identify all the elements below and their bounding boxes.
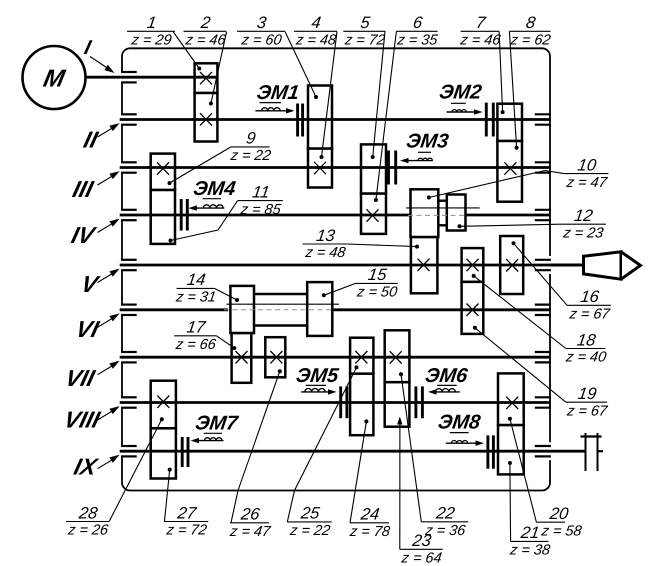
gear 20 (z=58) on shaft VIII <box>498 373 524 425</box>
right bearing shaft V <box>535 259 551 261</box>
right wall gap shaft V <box>549 256 552 274</box>
svg-text:VIII: VIII <box>62 407 103 433</box>
svg-text:10: 10 <box>576 155 598 174</box>
svg-text:z = 66: z = 66 <box>174 337 218 353</box>
svg-text:12: 12 <box>573 206 594 225</box>
X mark gear 19 <box>467 304 479 316</box>
gear 5 (z=72) free on shaft III <box>361 144 386 193</box>
svg-text:27: 27 <box>175 503 198 522</box>
svg-text:ЭМ3: ЭМ3 <box>405 131 450 153</box>
left bearing shaft VIII <box>121 396 137 398</box>
svg-text:z = 67: z = 67 <box>568 307 612 323</box>
gear 18 (z=40) on shaft V <box>462 248 484 282</box>
svg-text:z = 48: z = 48 <box>294 33 338 49</box>
svg-text:14: 14 <box>186 270 207 289</box>
svg-text:z = 85: z = 85 <box>239 202 283 218</box>
svg-text:z = 78: z = 78 <box>348 524 392 540</box>
X mark gear 13 <box>418 259 430 271</box>
gear 8 (z=62) on shaft III <box>497 141 522 202</box>
gear 10 (z=47) sliding on shaft IV <box>411 189 439 237</box>
svg-text:z = 64: z = 64 <box>400 551 443 566</box>
clutch plates EM1 (ЭМ1) <box>296 104 299 137</box>
svg-text:z = 47: z = 47 <box>565 175 609 191</box>
left wall gap shaft VI <box>121 305 124 315</box>
shaft III <box>120 166 550 169</box>
shaft V output extension <box>550 264 584 267</box>
left bearing shaft III <box>121 161 137 163</box>
shaft VII <box>120 356 550 359</box>
arrow to shaft V <box>98 271 117 283</box>
gear 26 (z=47) on shaft VII <box>265 337 285 377</box>
gear 13 (z=48) on shaft V <box>411 237 438 293</box>
arrow to shaft IX <box>98 457 117 469</box>
gear 15 (z=50) sliding on shaft VI <box>307 282 332 336</box>
right bearing shaft III <box>535 161 551 163</box>
svg-text:IX: IX <box>71 454 101 480</box>
svg-text:z = 50: z = 50 <box>355 285 398 301</box>
leader line for label 18 <box>474 276 566 349</box>
right bearing shaft II <box>535 113 551 115</box>
leader line for label 14 <box>214 288 237 300</box>
leader line for label 22 <box>401 374 421 522</box>
svg-text:z = 48: z = 48 <box>303 245 347 261</box>
svg-text:z = 31: z = 31 <box>174 290 217 306</box>
leader line for label 19 <box>475 328 566 402</box>
svg-text:8: 8 <box>525 13 538 32</box>
svg-text:III: III <box>70 176 96 202</box>
gear 28 (z=26) on shaft VIII <box>151 381 176 429</box>
shaft VI centerline (dashed) <box>224 309 334 311</box>
left wall gap shaft IV <box>121 210 124 220</box>
gear 17 (z=66) on shaft VII <box>232 333 252 383</box>
svg-text:z = 72: z = 72 <box>343 33 386 49</box>
svg-text:7: 7 <box>475 13 488 32</box>
svg-text:z = 62: z = 62 <box>509 33 552 49</box>
svg-text:21: 21 <box>519 523 541 542</box>
external bearing shaft IX <box>585 433 587 471</box>
left bearing shaft IV <box>121 209 137 211</box>
svg-text:3: 3 <box>256 13 269 32</box>
svg-text:z = 46: z = 46 <box>458 33 502 49</box>
arrow to shaft I <box>90 57 111 71</box>
svg-text:19: 19 <box>577 384 598 403</box>
svg-text:ЭМ5: ЭМ5 <box>295 365 341 387</box>
leader line for label 10 <box>429 171 564 198</box>
right wall gap shaft IX <box>549 442 552 460</box>
leader line for label 2 <box>211 32 227 104</box>
leader line for label 5 <box>373 31 385 157</box>
leader line for label 12 <box>460 224 560 226</box>
svg-text:z = 46: z = 46 <box>184 33 228 49</box>
clutch plates EM5 (ЭМ5) <box>339 386 342 418</box>
svg-text:ЭМ1: ЭМ1 <box>255 82 300 104</box>
motor M circle <box>23 46 86 109</box>
svg-text:z = 35: z = 35 <box>395 33 439 49</box>
svg-text:ЭМ4: ЭМ4 <box>192 178 237 200</box>
arrow to shaft IV <box>98 221 117 233</box>
X mark gear 22 <box>390 351 402 363</box>
X mark gear 8 <box>504 162 516 174</box>
svg-text:VII: VII <box>63 365 98 391</box>
clutch coil and arrow EM1 (ЭМ1) <box>260 102 282 104</box>
leader line for label 25 <box>287 367 356 522</box>
leader line for label 28 <box>109 419 162 521</box>
gear 4 (z=48) on shaft III <box>308 149 332 188</box>
X mark gear 16 <box>506 259 518 271</box>
left wall gap shaft I <box>121 72 124 82</box>
X mark gear 18 <box>467 259 479 271</box>
right bearing shaft VIII <box>535 396 551 398</box>
leader line for label 15 <box>324 283 356 295</box>
svg-text:IV: IV <box>69 222 99 248</box>
leader line for label 7 <box>499 31 503 112</box>
gear 22 (z=36) on shaft VII <box>385 330 410 382</box>
arrow to shaft VIII <box>98 408 117 420</box>
svg-text:18: 18 <box>576 330 598 349</box>
arrow to shaft VII <box>98 363 117 375</box>
arrow to shaft III <box>98 173 117 185</box>
leader line for label 13 <box>347 244 417 247</box>
gear 25 (z=22) on shaft VII <box>350 338 373 374</box>
svg-text:z = 67: z = 67 <box>565 403 609 419</box>
svg-text:13: 13 <box>315 226 337 245</box>
clutch coil and arrow EM3 (ЭМ3) <box>418 151 431 153</box>
gear 23 (z=64) free on shaft VIII <box>385 382 410 427</box>
left bearing shaft I <box>121 71 137 73</box>
svg-text:15: 15 <box>367 265 389 284</box>
svg-text:z = 22: z = 22 <box>229 148 272 164</box>
svg-text:4: 4 <box>310 13 322 32</box>
svg-text:16: 16 <box>579 287 601 306</box>
output arrow shaft V <box>584 252 622 279</box>
X mark gear 25 <box>355 351 367 363</box>
left bearing shaft VI <box>121 304 137 306</box>
svg-text:1: 1 <box>146 13 158 32</box>
clutch coil and arrow EM4 (ЭМ4) <box>203 198 221 200</box>
svg-text:11: 11 <box>251 182 271 201</box>
shaft V <box>120 264 550 267</box>
X mark gear 4 <box>314 162 326 174</box>
clutch coil and arrow EM5 (ЭМ5) <box>306 384 326 386</box>
svg-text:V: V <box>79 271 103 297</box>
left wall gap shaft II <box>121 115 124 125</box>
svg-text:28: 28 <box>77 503 100 522</box>
clutch plates EM7 (ЭМ7) <box>181 437 184 467</box>
gearbox housing <box>122 48 550 490</box>
left bearing shaft V <box>121 259 137 261</box>
gear 14 (z=31) sliding on shaft VI <box>230 286 254 333</box>
svg-text:z = 38: z = 38 <box>508 543 552 559</box>
leader line for label 1 <box>173 32 199 69</box>
svg-text:ЭМ7: ЭМ7 <box>194 413 240 435</box>
left wall gap shaft III <box>121 163 124 173</box>
gear 3 (z=60) free on shaft II <box>308 86 332 149</box>
gear 11 (z=85) free on shaft IV <box>151 190 175 244</box>
clutch coil and arrow EM2 (ЭМ2) <box>451 102 466 104</box>
clutch plates EM3 (ЭМ3) <box>387 151 390 185</box>
svg-text:VI: VI <box>73 316 102 342</box>
right bearing shaft IV <box>535 209 551 211</box>
gear 1 (z=29) on shaft I <box>195 63 218 93</box>
gear 2 (z=46) on shaft II <box>195 93 218 142</box>
left wall gap shaft VII <box>121 352 124 362</box>
clutch plates EM4 (ЭМ4) <box>180 199 183 231</box>
shaft IX external extension <box>550 450 587 453</box>
shaft VI spline line <box>227 303 339 305</box>
sleeve between gears 14 and 15 <box>254 293 307 295</box>
svg-text:z = 36: z = 36 <box>423 523 467 539</box>
svg-text:ЭМ6: ЭМ6 <box>424 365 470 387</box>
svg-text:z = 23: z = 23 <box>561 225 604 241</box>
shaft IV centerline (dashed) <box>408 214 467 216</box>
leader line for label 20 <box>510 419 537 523</box>
svg-text:z = 22: z = 22 <box>288 523 331 539</box>
svg-text:5: 5 <box>359 13 372 32</box>
right bearing shaft IX <box>535 445 551 447</box>
clutch plates EM6 (ЭМ6) <box>414 386 417 418</box>
leader line for label 26 <box>231 371 280 523</box>
shaft IV left segment <box>120 214 411 217</box>
svg-text:z = 40: z = 40 <box>564 350 607 366</box>
svg-text:17: 17 <box>186 318 208 337</box>
left bearing shaft VII <box>121 351 137 353</box>
left wall gap shaft IX <box>121 446 124 456</box>
X mark gear 1 <box>200 72 212 84</box>
svg-text:z = 47: z = 47 <box>228 524 272 540</box>
leader line for label 6 <box>376 31 397 200</box>
svg-text:6: 6 <box>412 13 425 32</box>
arrow to shaft II <box>98 125 117 137</box>
svg-text:ЭМ8: ЭМ8 <box>437 412 483 434</box>
gear 24 (z=78) free on shaft VIII <box>350 374 373 436</box>
shaft VI left segment <box>120 308 228 311</box>
svg-text:24: 24 <box>359 505 381 524</box>
X mark gear 17 <box>236 351 248 363</box>
X mark gear 9 <box>157 162 169 174</box>
gear 6 (z=35) on shaft IV <box>361 194 386 234</box>
gear 19 (z=67) on shaft VI <box>462 282 484 334</box>
X mark gear 2 <box>200 113 212 125</box>
shaft II <box>120 118 550 121</box>
leader line for label 17 <box>217 336 235 348</box>
gear 12 (z=23) sliding on shaft IV <box>447 195 466 231</box>
shaft I <box>86 76 218 79</box>
right bearing shaft VII <box>535 351 551 353</box>
gear 9 (z=22) on shaft III <box>151 154 175 190</box>
svg-text:2: 2 <box>199 13 212 32</box>
svg-text:ЭМ2: ЭМ2 <box>438 82 483 104</box>
leader line for label 8 <box>509 31 516 148</box>
shaft VIII <box>120 401 550 404</box>
clutch coil and arrow EM8 (ЭМ8) <box>450 432 469 434</box>
leader line for label 4 <box>322 31 338 157</box>
connector gear10-gear12 <box>438 199 447 201</box>
leader line for label 11 <box>171 201 238 241</box>
shaft IV right segment <box>466 214 551 217</box>
shaft IV spline line <box>406 207 480 209</box>
gear 21 (z=38) free on shaft IX <box>498 425 524 474</box>
svg-text:26: 26 <box>239 505 262 524</box>
X mark gear 20 <box>506 397 518 409</box>
svg-text:z = 58: z = 58 <box>540 523 584 539</box>
right bearing shaft VI <box>535 304 551 306</box>
X mark gear 26 <box>270 351 282 363</box>
svg-text:z = 72: z = 72 <box>165 523 208 539</box>
leader line for label 24 <box>350 421 366 522</box>
gear 27 (z=72) free on shaft IX <box>151 428 176 478</box>
leader line for label 3 <box>285 32 316 98</box>
clutch plates EM2 (ЭМ2) <box>485 103 488 137</box>
leader line for label 9 <box>170 147 231 183</box>
gear 7 (z=46) free on shaft II <box>497 104 522 141</box>
shaft IX <box>120 450 550 453</box>
gear 16 (z=67) on shaft V <box>500 236 523 294</box>
svg-text:20: 20 <box>548 504 571 523</box>
svg-text:II: II <box>81 127 101 153</box>
svg-text:I: I <box>82 37 93 59</box>
X mark gear 28 <box>157 396 169 408</box>
svg-text:z = 26: z = 26 <box>66 523 110 539</box>
svg-text:22: 22 <box>434 504 456 523</box>
leader line for label 21 <box>509 463 512 541</box>
svg-text:25: 25 <box>299 504 322 523</box>
clutch coil and arrow EM6 (ЭМ6) <box>437 384 457 386</box>
X mark gear 6 <box>367 209 379 221</box>
clutch coil and arrow EM7 (ЭМ7) <box>204 432 222 434</box>
leader line for label 27 <box>165 470 170 521</box>
arrow to shaft VI <box>98 316 117 328</box>
svg-text:z = 60: z = 60 <box>240 33 283 49</box>
left bearing shaft IX <box>121 445 137 447</box>
shaft VI right segment <box>332 308 550 311</box>
clutch plates EM8 (ЭМ8) <box>486 435 489 468</box>
left wall gap shaft V <box>121 260 124 270</box>
left bearing shaft II <box>121 113 137 115</box>
svg-text:z = 29: z = 29 <box>130 33 173 49</box>
left wall gap shaft VIII <box>121 398 124 408</box>
leader line for label 16 <box>514 243 568 305</box>
leader line for label 23 <box>399 419 401 550</box>
